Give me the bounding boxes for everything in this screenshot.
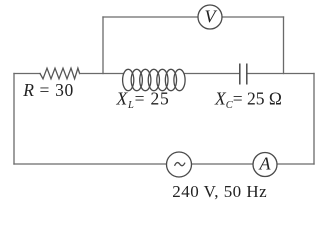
svg-text:240 V, 50 Hz: 240 V, 50 Hz [172,182,267,201]
svg-text:R = 30: R = 30 [22,80,74,100]
wire top left to voltmeter [103,16,198,18]
wire right vertical [313,74,315,165]
wire left vertical [13,74,15,165]
ammeter A1 [253,153,277,177]
voltmeter U1 [198,5,222,29]
inductor L1 coil [123,69,185,90]
wire capacitor right lead [247,73,314,75]
wire inductor to capacitor [185,73,239,75]
svg-text:A: A [259,154,272,174]
ac source V1 [167,152,192,177]
wire bottom left [14,163,167,165]
node A voltmeter branch left vertical [102,17,104,74]
wire resistor left lead [14,73,40,75]
wire bottom right [277,163,314,165]
svg-text:XL= 25: XL= 25 [116,89,170,112]
wire voltmeter to top right [222,16,284,18]
capacitor C1 plates [240,64,247,85]
wire resistor to inductor [80,73,124,75]
wire bottom middle [192,163,254,165]
node B voltmeter branch right vertical [283,17,285,74]
svg-text:XC= 25 Ω: XC= 25 Ω [214,89,282,112]
resistor R1 zigzag [40,68,80,79]
